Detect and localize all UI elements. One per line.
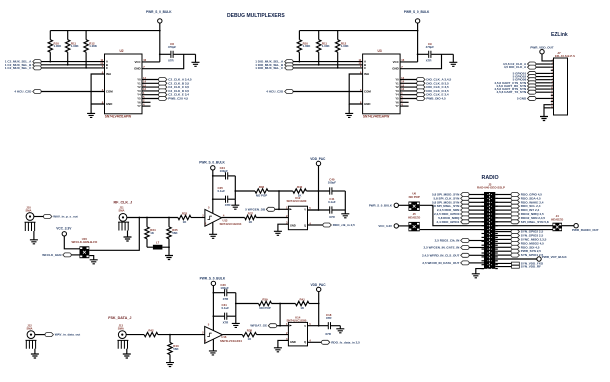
- capacitor C40: [330, 187, 332, 194]
- svg-text:PWB_DIO 4,5: PWB_DIO 4,5: [426, 97, 446, 101]
- svg-text:11: 11: [551, 91, 553, 93]
- buffer U13 SN74LVC1GX04 (RF): [205, 209, 222, 226]
- mux IC U2 (B): [363, 54, 401, 114]
- net flag SYN_GPIO2 (RADIO lower-right): [495, 231, 511, 233]
- pin row 16 J3: [482, 252, 485, 254]
- net flag SYN_GPIO1 (RADIO lower-right): [495, 254, 511, 256]
- svg-text:Y0: Y0: [137, 78, 141, 82]
- wire (EZLink): [536, 88, 551, 90]
- wire select B (A): [41, 64, 104, 66]
- svg-text:15: 15: [401, 83, 404, 87]
- svg-text:WFDAT_GE: WFDAT_GE: [250, 324, 267, 328]
- svg-text:COM: COM: [106, 90, 113, 94]
- ground below mux (B): [345, 113, 353, 117]
- pin 3 J7: [551, 66, 554, 68]
- wire pin5 supply (FSK): [308, 325, 329, 327]
- ground oscillator: [90, 260, 98, 264]
- wire (RADIO lower-left): [469, 240, 484, 242]
- mux output Y0 net flag (A): [142, 79, 159, 81]
- svg-text:Y1: Y1: [395, 81, 399, 85]
- svg-text:SN74LV4051APW: SN74LV4051APW: [105, 114, 131, 118]
- net flag GND (EZLink): [528, 96, 536, 100]
- wire (RADIO left): [469, 205, 484, 207]
- svg-text:R38: R38: [247, 329, 253, 333]
- net box SYN_VDD_FXO: [495, 262, 511, 264]
- svg-text:2,5 RDO2_Clk_IN: 2,5 RDO2_Clk_IN: [435, 239, 460, 243]
- resistor R38: [242, 332, 256, 336]
- svg-text:PWR_S_0_BULK: PWR_S_0_BULK: [369, 203, 393, 207]
- ground pin3 (RF): [274, 231, 282, 235]
- wire select C (A): [41, 67, 104, 69]
- wire buffer out to R38: [222, 334, 242, 336]
- svg-text:1.00K: 1.00K: [341, 44, 350, 48]
- svg-text:V: V: [304, 324, 306, 328]
- pin row 4 J3: [482, 205, 485, 207]
- svg-text:1 C2_MUX_SEL_C: 1 C2_MUX_SEL_C: [5, 66, 32, 70]
- svg-text:9: 9: [552, 85, 553, 87]
- pin 9 J7: [551, 85, 554, 87]
- svg-text:R33: R33: [182, 212, 188, 216]
- pin row 9 J3: [482, 225, 485, 227]
- svg-text:8: 8: [552, 81, 553, 83]
- wire COM (B): [293, 91, 363, 93]
- svg-text:GND: GND: [134, 67, 140, 71]
- resistor R12 pullup (B): [337, 31, 339, 40]
- wire flag to pin1 (FSK): [277, 325, 289, 327]
- svg-text:PWR_VDD_OUT: PWR_VDD_OUT: [530, 45, 554, 49]
- wire cap join vertical (RF): [234, 176, 236, 199]
- net flag UART_TX_SYN (EZLink): [528, 90, 536, 94]
- wire junction down to pin1 (RF): [278, 191, 280, 209]
- wire R39 to R41: [272, 303, 296, 305]
- mux IC U2 (A): [105, 54, 143, 114]
- wire (RADIO left): [469, 209, 484, 211]
- wire (RADIO left): [469, 194, 484, 196]
- svg-text:12: 12: [551, 94, 553, 96]
- SMA body shield: [25, 222, 36, 231]
- net flag WFGEN_IN_GATE_IN (RADIO lower-left): [461, 246, 469, 250]
- wire pin3 to ground (RF): [278, 224, 289, 231]
- pin 13 J7: [551, 97, 554, 99]
- pin 6 J7: [551, 76, 554, 78]
- resistor R40: [293, 189, 307, 193]
- net flag WFRD_IN_CLS_OUT (RADIO lower-left): [461, 253, 469, 257]
- svg-text:X7R: X7R: [168, 58, 175, 62]
- wire EZLink ground pins: [544, 105, 551, 117]
- mux stub pin 4 (A): [142, 105, 151, 107]
- svg-text:2,5 WFOR_IN_DATA_OUT: 2,5 WFOR_IN_DATA_OUT: [422, 261, 459, 265]
- mux output Y3 net flag (B): [400, 90, 417, 92]
- wire pin5 supply (RF): [308, 209, 319, 211]
- svg-text:X7R: X7R: [329, 215, 336, 219]
- pin row 18 J3: [482, 260, 485, 262]
- wire VDD vertical (RF): [318, 165, 320, 210]
- svg-text:R37: R37: [248, 212, 254, 216]
- svg-text:Y7: Y7: [137, 104, 141, 108]
- pin 5 J7: [551, 72, 554, 74]
- pin row 2 J3: [482, 197, 485, 199]
- resistor R34 shunt: [146, 218, 148, 227]
- svg-text:13: 13: [143, 76, 146, 80]
- svg-text:PWR_VFP_BULK: PWR_VFP_BULK: [542, 255, 568, 259]
- ground cap block (RF): [234, 199, 236, 205]
- wire VDD vertical (FSK): [318, 291, 320, 326]
- mux output Y5 net flag (B): [400, 98, 417, 100]
- pin 12 J7: [551, 94, 554, 96]
- mux output Y4 net flag (B): [400, 94, 417, 96]
- wire oscillator output to RF node: [89, 218, 139, 251]
- mux stub pin 4 (B): [400, 105, 409, 107]
- svg-text:V: V: [304, 208, 306, 212]
- svg-text:X7R: X7R: [223, 297, 230, 301]
- svg-text:R41: R41: [300, 298, 306, 302]
- capacitor C30: [213, 292, 224, 294]
- svg-text:HEADZO: HEADZO: [551, 218, 564, 222]
- net flag DIO_MUX_SEL_A (B): [285, 60, 293, 64]
- net flag RDO2_Clk_IN (RADIO lower-left): [461, 239, 469, 243]
- svg-text:R36: R36: [259, 185, 265, 189]
- mux output Y5 net flag (A): [142, 98, 159, 100]
- net flag GPIO01 (EZLink): [528, 71, 536, 75]
- wire (EZLink): [536, 66, 551, 68]
- wire pullup bus (B): [299, 30, 417, 32]
- wire INH to ground (A): [91, 74, 104, 104]
- net flag DIO_CLK_A (EZLink): [528, 65, 536, 69]
- wire rows to J4: [495, 225, 552, 227]
- capacitor C18: [328, 322, 330, 329]
- ground buffer (FSK): [209, 351, 217, 355]
- pin row 14 J3: [482, 244, 485, 246]
- net flag SPI_NSEL_SYN (RADIO right): [495, 221, 511, 223]
- svg-text:GND: GND: [392, 67, 398, 71]
- pin row 13 J3: [482, 240, 485, 242]
- wire power vertical (FSK): [212, 285, 214, 330]
- wire (RADIO lower-left): [469, 247, 484, 249]
- svg-text:14: 14: [401, 80, 404, 84]
- mux output Y2 net flag (A): [142, 86, 159, 88]
- net flag RDO_MISO2 (RADIO lower-right): [495, 242, 511, 244]
- wire U6 to bus row9: [420, 205, 484, 225]
- wire GND pin to rail (A): [142, 54, 184, 68]
- net flag HCU_C2D (B): [285, 90, 293, 94]
- ground RADIO: [472, 274, 480, 278]
- resistor R11 pullup (B): [318, 31, 320, 40]
- svg-text:R39: R39: [262, 298, 268, 302]
- net flag WFOR_IN_DATA_OUT (RADIO lower-left): [461, 261, 469, 265]
- wire (RADIO left): [469, 197, 484, 199]
- svg-text:1.00K: 1.00K: [303, 44, 312, 48]
- pin 2 J7: [551, 63, 554, 65]
- capacitor C31: [213, 315, 224, 317]
- pin 15 J7: [551, 104, 554, 106]
- svg-text:WAV_in_data_out: WAV_in_data_out: [55, 333, 81, 337]
- pin row 6 J3: [482, 213, 485, 215]
- wire R33 to buffer: [191, 217, 205, 219]
- svg-text:Y3: Y3: [137, 89, 141, 93]
- net flag PWR_SYN (RADIO lower-right): [495, 250, 511, 252]
- svg-text:470pF: 470pF: [426, 45, 435, 49]
- resistor R43 shunt FSK: [169, 335, 171, 343]
- wire junction down to pin1 (FSK): [279, 304, 281, 326]
- capacitor C8 (A): [171, 51, 173, 58]
- svg-text:Y5: Y5: [137, 97, 141, 101]
- svg-text:WFCLK_GEN: WFCLK_GEN: [42, 253, 61, 257]
- svg-text:Y1: Y1: [137, 81, 141, 85]
- svg-text:470pF: 470pF: [168, 45, 177, 49]
- svg-text:12: 12: [401, 87, 404, 91]
- resistor R33 series: [178, 215, 191, 219]
- wire SMA1 to flag: [34, 216, 44, 218]
- svg-text:Y4: Y4: [395, 93, 399, 97]
- net flag C2_MUX_SEL_B (A): [33, 63, 41, 67]
- mux output Y3 net flag (A): [142, 90, 159, 92]
- svg-text:SMA: SMA: [27, 326, 33, 330]
- wire select A (B): [293, 61, 363, 63]
- svg-text:1.00K: 1.00K: [89, 44, 98, 48]
- svg-text:PWR_S_0_BULK: PWR_S_0_BULK: [404, 10, 430, 14]
- svg-text:RDO_fs_data_in 2,5: RDO_fs_data_in 2,5: [331, 340, 360, 344]
- capacitor C41: [308, 209, 330, 211]
- wire INH to ground (B): [349, 74, 362, 104]
- net flag WFDAT_GE (FSK): [268, 324, 276, 328]
- pin row 10 J3: [482, 229, 485, 231]
- ground cap block (FSK): [235, 316, 237, 323]
- net flag RDO_SDA (RADIO right): [495, 197, 511, 199]
- net flag WAV_in_data_out: [45, 333, 53, 337]
- wire decoupling rail (B): [418, 53, 429, 55]
- mux output Y2 net flag (B): [400, 86, 417, 88]
- net flag SYN_GPIO3 (RADIO lower-right): [495, 235, 511, 237]
- svg-text:4 HCU_C2D: 4 HCU_C2D: [266, 90, 284, 94]
- wire R41 to VDD (FSK): [309, 303, 319, 305]
- ground R43: [166, 363, 174, 367]
- net flag C2_MUX_SEL_A (A): [33, 60, 41, 64]
- mux output Y0 net flag (B): [400, 79, 417, 81]
- svg-text:16: 16: [551, 106, 553, 108]
- svg-text:1: 1: [552, 60, 553, 62]
- svg-text:X7R: X7R: [325, 332, 332, 336]
- net flag RDO_GPIO1 (RADIO left): [461, 220, 469, 224]
- resistor R41: [295, 301, 309, 305]
- net flag PWR_VFP_BULK: [495, 258, 537, 260]
- net flag UART_CTS_SYN (EZLink): [528, 81, 536, 85]
- svg-text:NO POP: NO POP: [409, 195, 420, 199]
- svg-text:Y7: Y7: [395, 104, 399, 108]
- svg-text:INH: INH: [364, 72, 369, 76]
- wire R37 to pin2 (RF): [256, 217, 288, 219]
- resistor R42 series FSK: [144, 332, 158, 336]
- svg-text:13: 13: [551, 97, 553, 99]
- svg-text:10: 10: [551, 88, 553, 90]
- pin row 5 J3: [482, 209, 485, 211]
- svg-text:4,5,6 UART_TX_SYN: 4,5,6 UART_TX_SYN: [497, 90, 527, 94]
- net flag RDO_GPIO0 (RADIO left): [461, 212, 469, 216]
- svg-text:1.00K: 1.00K: [322, 44, 331, 48]
- svg-text:WAV_in_p_s_out: WAV_in_p_s_out: [53, 215, 77, 219]
- connector J7 EZLink: [554, 58, 568, 115]
- ground decoupling (B): [452, 54, 454, 62]
- svg-text:SN74LV4051APW: SN74LV4051APW: [363, 114, 389, 118]
- wire (EZLink): [536, 76, 551, 78]
- ground EZLink: [540, 117, 548, 121]
- capacitor C25: [213, 198, 226, 200]
- capacitor C8 (B): [429, 51, 431, 58]
- net box SYN_VDD_RF: [495, 266, 511, 268]
- svg-text:RDO_clk_in 2,5: RDO_clk_in 2,5: [333, 223, 355, 227]
- net flag RDO_fs_data_in: [321, 340, 329, 344]
- resistor R36 NO POP: [255, 189, 268, 193]
- svg-text:Y6: Y6: [395, 100, 399, 104]
- svg-text:PWB_C2X 4,5: PWB_C2X 4,5: [168, 97, 188, 101]
- pin row 19 J3: [482, 264, 485, 266]
- ground caps (RF): [344, 210, 346, 214]
- net flag RDO_SDI (RADIO lower-right): [495, 246, 511, 248]
- terminal circle (U6 input): [394, 203, 398, 207]
- svg-text:SN74LVC1GX04: SN74LVC1GX04: [220, 339, 242, 343]
- net flag SPI_MOSI_SYN (RADIO left): [461, 200, 469, 204]
- svg-text:Y4: Y4: [137, 93, 141, 97]
- svg-text:GND: GND: [106, 102, 112, 106]
- svg-text:X7R: X7R: [426, 58, 433, 62]
- wire buffer out to R37: [222, 217, 245, 219]
- wire (EZLink): [536, 97, 551, 99]
- svg-text:1 DIO_MUX_SEL_C: 1 DIO_MUX_SEL_C: [255, 66, 284, 70]
- net flag GPIO08 (EZLink): [528, 78, 536, 82]
- svg-text:Q: Q: [304, 224, 306, 228]
- svg-text:SPI_NSEL_SYN 5,8: SPI_NSEL_SYN 5,8: [521, 220, 549, 224]
- svg-text:R40: R40: [297, 185, 303, 189]
- pin 16 J7: [551, 107, 554, 109]
- net flag RDO_INT (RADIO right): [495, 209, 511, 211]
- wire (EZLink): [536, 72, 551, 74]
- svg-text:Y5: Y5: [395, 97, 399, 101]
- svg-text:VDD_PAC: VDD_PAC: [311, 283, 327, 287]
- pin 8 J7: [551, 82, 554, 84]
- svg-text:SYN_VDD_RF: SYN_VDD_RF: [521, 265, 541, 269]
- svg-text:X7R: X7R: [326, 316, 333, 320]
- net flag GPIO02 (EZLink): [528, 75, 536, 79]
- ground pin3 (FSK): [274, 348, 282, 352]
- wire J5 to bus row10: [420, 229, 484, 231]
- wire SMA to flag (bottom left): [35, 334, 45, 336]
- svg-text:14: 14: [143, 80, 146, 84]
- wire rail to R39: [236, 303, 259, 305]
- wire R38 to pin2 (FSK): [257, 334, 289, 336]
- ground C18: [339, 326, 341, 329]
- mux output Y4 net flag (A): [142, 94, 159, 96]
- wire (RADIO lower-left): [469, 262, 484, 264]
- svg-text:Y0: Y0: [395, 78, 399, 82]
- pin row 15 J3: [482, 248, 485, 250]
- svg-text:GND: GND: [364, 102, 370, 106]
- svg-text:RF_CLK_J: RF_CLK_J: [114, 200, 133, 204]
- wire flag to oscillator: [71, 254, 79, 256]
- svg-text:Q: Q: [304, 340, 306, 344]
- svg-text:EZLink: EZLink: [551, 32, 568, 38]
- wire rail to R36: [235, 190, 255, 192]
- svg-text:56K: 56K: [173, 347, 179, 351]
- wire R40 to cap C40: [306, 190, 329, 192]
- ground below mux (A): [87, 113, 95, 117]
- net flag UART_RTS_SYN (EZLink): [528, 87, 536, 91]
- svg-text:DEBUG MULTIPLEXERS: DEBUG MULTIPLEXERS: [227, 13, 285, 19]
- net flag RDO_GPIO (RADIO right): [495, 194, 511, 196]
- wire pin3 to ground (FSK): [278, 340, 289, 347]
- svg-text:0.1uF: 0.1uF: [328, 200, 336, 204]
- wire power vertical (RF): [212, 170, 214, 214]
- pin row 11 J3: [482, 233, 485, 235]
- wire GND pin to rail (B): [400, 54, 441, 68]
- wire VCC to WFCLK gen: [64, 236, 79, 249]
- svg-text:7: 7: [552, 78, 553, 80]
- svg-text:FSK_DATA_J: FSK_DATA_J: [108, 316, 131, 320]
- net flag RDO_SCL (RADIO right): [495, 205, 511, 207]
- wire buffer ground (FSK): [212, 339, 214, 351]
- wire buffer ground (RF): [212, 222, 214, 234]
- wire FSK main: [126, 334, 144, 336]
- pin 11 J7: [551, 91, 554, 93]
- ground decoupling (A): [195, 54, 197, 62]
- SMA body shield (far left bottom): [26, 340, 37, 348]
- net flag RDO2_SDN (RADIO right): [495, 217, 511, 219]
- resistor R10 pullup (B): [298, 31, 300, 40]
- svg-text:RAD-040-GEO-SSLP: RAD-040-GEO-SSLP: [477, 186, 505, 190]
- svg-text:SMA: SMA: [119, 208, 125, 212]
- svg-text:INH: INH: [106, 72, 111, 76]
- mux stub pin 2 (B): [400, 101, 409, 103]
- svg-text:2,4 RDO_GPIO1: 2,4 RDO_GPIO1: [437, 220, 460, 224]
- pin 10 J7: [551, 88, 554, 90]
- svg-text:15: 15: [143, 83, 146, 87]
- ground SMA FSK: [123, 354, 131, 358]
- resistor R10 pullup (A): [49, 31, 51, 40]
- svg-text:GND: GND: [290, 224, 296, 228]
- mux output Y1 net flag (A): [142, 82, 159, 84]
- wire RF main: [127, 217, 178, 219]
- pin 7 J7: [551, 79, 554, 81]
- svg-text:R42: R42: [148, 329, 154, 333]
- net flag UART_RX_SYN (EZLink): [528, 84, 536, 88]
- net flag RDO_SDN (RADIO left): [461, 208, 469, 212]
- svg-text:VCC_3.3V: VCC_3.3V: [56, 226, 72, 230]
- net flag SPI_MISO_SYN (RADIO left): [461, 193, 469, 197]
- SMA body shield RF: [118, 222, 129, 230]
- svg-text:100pF: 100pF: [220, 169, 229, 173]
- SMA body shield FSK: [117, 340, 128, 348]
- wire pullup bus (A): [50, 30, 160, 32]
- svg-text:0.1uF: 0.1uF: [218, 189, 226, 193]
- resistor R39 NO POP: [259, 301, 272, 305]
- svg-text:6: 6: [552, 75, 553, 77]
- svg-text:L7: L7: [156, 241, 160, 245]
- wire circle to U6: [398, 204, 408, 206]
- svg-text:X7R: X7R: [223, 320, 230, 324]
- svg-text:2,5 WFGEN_IN_GATE_IN: 2,5 WFGEN_IN_GATE_IN: [424, 246, 460, 250]
- pin row 12 J3: [482, 236, 485, 238]
- svg-text:U2: U2: [119, 49, 123, 53]
- wire R36 to R40: [268, 190, 293, 192]
- svg-text:GND: GND: [290, 340, 296, 344]
- wire (RADIO left): [469, 213, 484, 215]
- svg-text:SMA: SMA: [118, 326, 124, 330]
- net flag WFCLK_GEN: [63, 253, 71, 257]
- wire (EZLink): [536, 85, 551, 87]
- wire power to pin1: [542, 54, 554, 61]
- pin row 7 J3: [482, 217, 485, 219]
- ground R35: [165, 256, 173, 260]
- svg-text:0.1uF: 0.1uF: [222, 306, 230, 310]
- svg-text:2,4,5 WFRD_IN_CLS_OUT: 2,4,5 WFRD_IN_CLS_OUT: [422, 253, 460, 257]
